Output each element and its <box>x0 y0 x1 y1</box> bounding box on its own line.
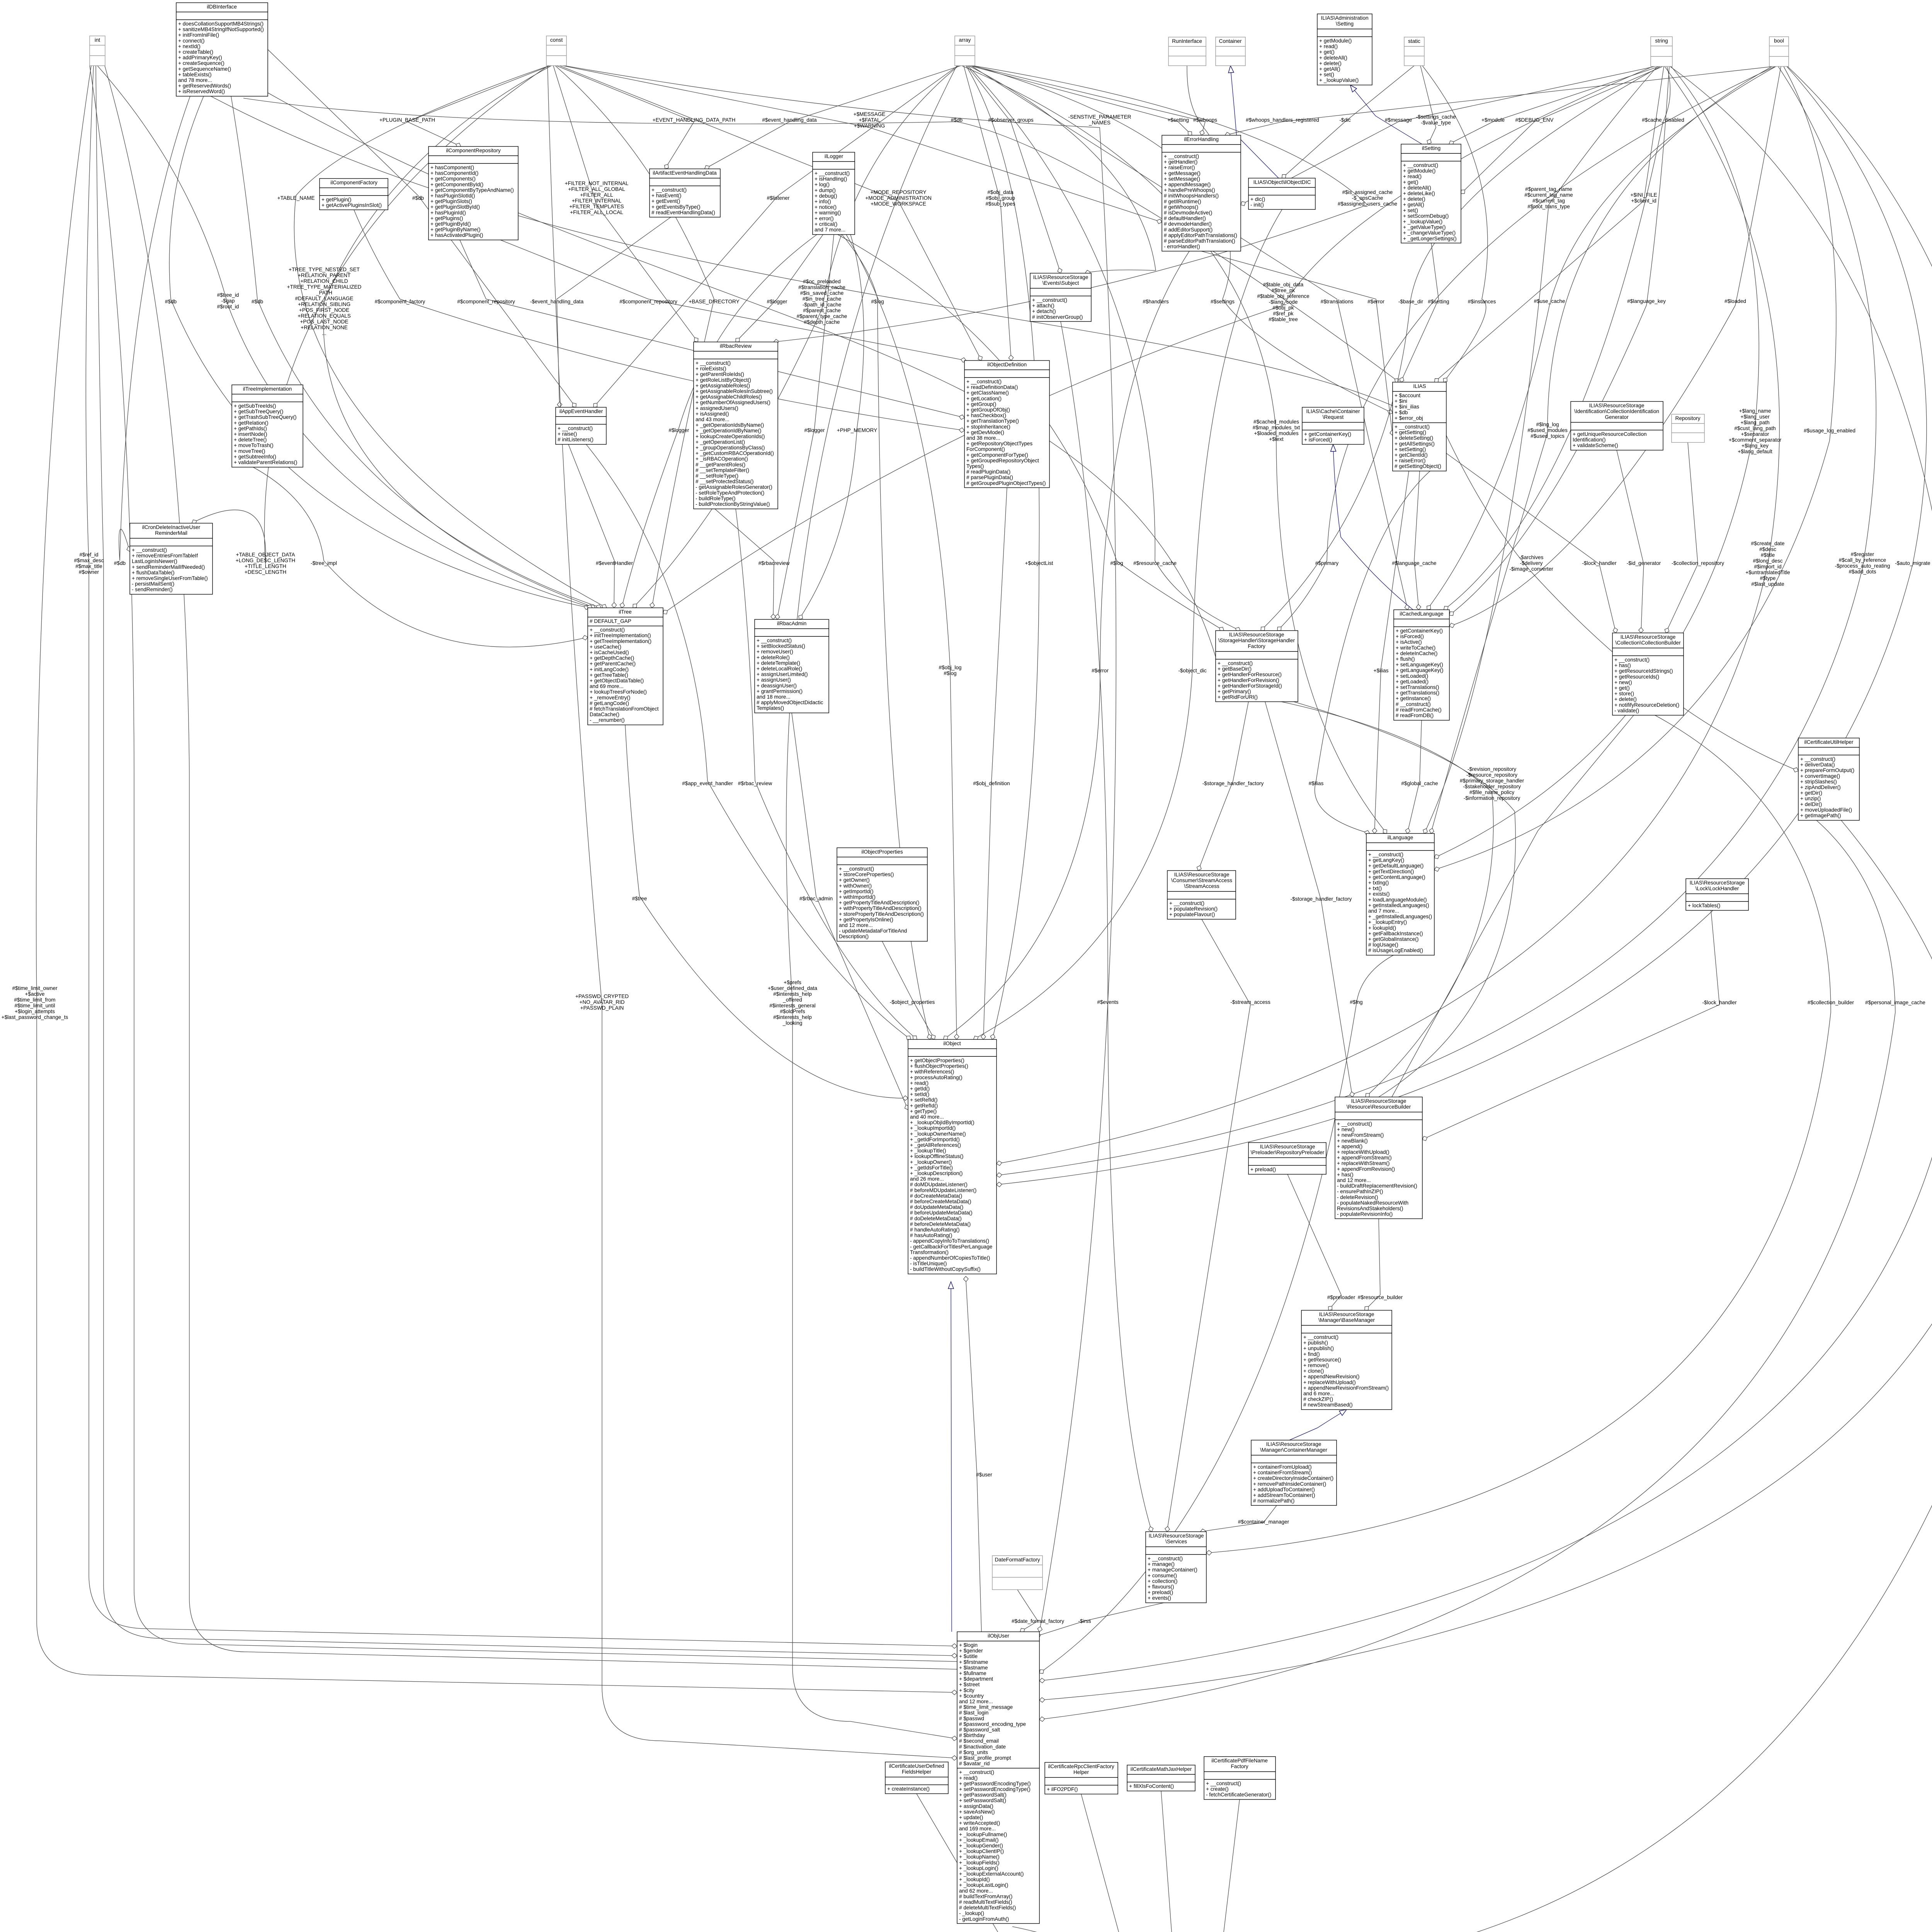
svg-text:ILIAS\ResourceStorage: ILIAS\ResourceStorage <box>1266 1441 1321 1447</box>
svg-text:-$archives: -$archives <box>1519 554 1544 560</box>
svg-text:#$container_manager: #$container_manager <box>1238 1519 1289 1525</box>
svg-text:+ withPropertyTitleAndDescript: + withPropertyTitleAndDescription() <box>839 905 922 911</box>
svg-text:#$register: #$register <box>1851 551 1874 557</box>
svg-text:+ setRefId(): + setRefId() <box>910 1097 937 1103</box>
svg-text:- _lookup(): - _lookup() <box>959 1910 984 1916</box>
svg-text:+ clone(): + clone() <box>1303 1368 1324 1374</box>
svg-text:ilDBInterface: ilDBInterface <box>207 4 237 10</box>
svg-text:ilComponentFactory: ilComponentFactory <box>330 180 378 185</box>
svg-text:# normalizePath(): # normalizePath() <box>1253 1498 1294 1504</box>
svg-text:+ getParentCache(): + getParentCache() <box>590 661 636 667</box>
svg-text:#$log: #$log <box>1110 560 1123 566</box>
svg-text:#$obj_group: #$obj_group <box>986 195 1015 201</box>
svg-text:-$image_converter: -$image_converter <box>1509 566 1553 572</box>
svg-text:+$module: +$module <box>1481 117 1505 123</box>
svg-text:Helper: Helper <box>1073 1769 1089 1775</box>
svg-text:+ __construct(): + __construct() <box>1395 424 1430 430</box>
svg-text:#$DEBUG_ENV: #$DEBUG_ENV <box>1515 117 1554 123</box>
svg-text:# readEventHandlingData(): # readEventHandlingData() <box>651 209 715 215</box>
svg-text:+ dump(): + dump() <box>815 187 836 193</box>
svg-text:+ getSubTreeIds(): + getSubTreeIds() <box>234 403 276 409</box>
svg-text:#$add_dots: #$add_dots <box>1849 569 1876 575</box>
svg-text:# readMultiTextFields(): # readMultiTextFields() <box>959 1899 1012 1905</box>
svg-text:+ update(): + update() <box>959 1815 983 1820</box>
svg-text:\StreamAccess: \StreamAccess <box>1184 883 1219 889</box>
svg-text:+ __construct(): + __construct() <box>1169 900 1204 906</box>
svg-text:#$desc: #$desc <box>1759 546 1776 552</box>
svg-text:+RELATION_PARENT: +RELATION_PARENT <box>298 272 351 278</box>
svg-text:-$lock_handler: -$lock_handler <box>1582 560 1617 566</box>
svg-text:-SENSTIVE_PARAMETER: -SENSTIVE_PARAMETER <box>1068 114 1131 120</box>
svg-text:...: ... <box>322 330 326 336</box>
svg-text:+ populateFlavour(): + populateFlavour() <box>1169 912 1215 917</box>
svg-text:# __construct(): # __construct() <box>1396 701 1431 707</box>
svg-text:+ hasPluginSlotId(): + hasPluginSlotId() <box>430 193 475 199</box>
svg-text:ForComponent(): ForComponent() <box>966 446 1005 452</box>
svg-text:#$settings: #$settings <box>1211 299 1235 304</box>
svg-text:+ debug(): + debug() <box>815 193 837 199</box>
svg-text:+ __construct(): + __construct() <box>132 547 167 553</box>
svg-text:ilObject: ilObject <box>943 1041 961 1046</box>
svg-text:-$storage_handler_factory: -$storage_handler_factory <box>1202 781 1264 786</box>
svg-text:+ nextId(): + nextId() <box>178 43 201 49</box>
svg-text:#$create_date: #$create_date <box>1751 541 1785 546</box>
svg-text:+MODE_REPOSITORY: +MODE_REPOSITORY <box>871 189 927 195</box>
svg-text:+ saveAsNew(): + saveAsNew() <box>959 1809 995 1815</box>
svg-text:+ lookupOfflineStatus(): + lookupOfflineStatus() <box>910 1153 963 1159</box>
svg-text:+ withImportId(): + withImportId() <box>839 894 876 900</box>
svg-text:and 38 more...: and 38 more... <box>966 435 1000 441</box>
svg-text:#$obj_definition: #$obj_definition <box>973 781 1010 786</box>
svg-text:+ raise(): + raise() <box>558 431 577 437</box>
svg-text:#$app_event_handler: #$app_event_handler <box>682 781 733 786</box>
svg-text:+ flushObjectProperties(): + flushObjectProperties() <box>910 1063 968 1069</box>
svg-text:and 26 more...: and 26 more... <box>910 1176 944 1182</box>
svg-text:#$error: #$error <box>1092 668 1109 673</box>
svg-text:+ create(): + create() <box>1206 1786 1229 1792</box>
svg-text:#$is_assigned_cache: #$is_assigned_cache <box>1342 189 1393 195</box>
svg-text:+ sendReminderMailIfNeeded(): + sendReminderMailIfNeeded() <box>132 564 205 570</box>
svg-text:+ getType(): + getType() <box>910 1108 937 1114</box>
svg-text:+TREE_TYPE_MATERIALIZED: +TREE_TYPE_MATERIALIZED <box>287 284 362 290</box>
svg-text:#$language_key: #$language_key <box>1627 298 1666 304</box>
svg-text:-$value_type: -$value_type <box>1421 120 1451 126</box>
svg-text:#$import_id: #$import_id <box>1754 564 1781 570</box>
svg-text:\Preloader\RepositoryPreloader: \Preloader\RepositoryPreloader <box>1251 1150 1325 1155</box>
svg-text:+ getAssignableRoles(): + getAssignableRoles() <box>696 383 750 388</box>
svg-text:+ _lookupEmail(): + _lookupEmail() <box>959 1837 998 1843</box>
svg-text:ILIAS\ResourceStorage: ILIAS\ResourceStorage <box>1260 1144 1315 1150</box>
svg-text:FieldsHelper: FieldsHelper <box>902 1769 932 1775</box>
svg-text:+ _lookupObjIdByImportId(): + _lookupObjIdByImportId() <box>910 1120 975 1126</box>
svg-text:+ assignUser(): + assignUser() <box>757 677 791 683</box>
svg-text:#$instances: #$instances <box>1468 299 1496 304</box>
svg-text:+ _getLongerSettings(): + _getLongerSettings() <box>1403 236 1457 241</box>
svg-text:+ _lookupId(): + _lookupId() <box>959 1877 990 1883</box>
svg-text:+ getAssignableChildRoles(): + getAssignableChildRoles() <box>696 394 762 400</box>
svg-text:- updateMetadataForTitleAnd: - updateMetadataForTitleAnd <box>839 928 907 934</box>
svg-text:\Identification\CollectionIden: \Identification\CollectionIdentification <box>1574 408 1659 414</box>
svg-text:+ manage(): + manage() <box>1148 1561 1175 1567</box>
svg-text:+ handlePreWhoops(): + handlePreWhoops() <box>1164 187 1215 193</box>
svg-text:+ isActive(): + isActive() <box>1396 639 1422 645</box>
svg-text:+ fillXlsFoContent(): + fillXlsFoContent() <box>1129 1783 1174 1789</box>
svg-text:#$table_obj_data: #$table_obj_data <box>1263 282 1304 287</box>
svg-text:and 18 more...: and 18 more... <box>757 694 791 700</box>
svg-text:+ setScormDebug(): + setScormDebug() <box>1403 213 1449 219</box>
svg-text:+ getId(): + getId() <box>910 1086 930 1092</box>
svg-text:+ __construct(): + __construct() <box>1800 756 1835 762</box>
svg-text:+ _removeEntry(): + _removeEntry() <box>590 695 630 701</box>
svg-text:+PASSWD_PLAIN: +PASSWD_PLAIN <box>580 1005 624 1011</box>
svg-text:string: string <box>1655 38 1668 44</box>
svg-text:#$tree_pk: #$tree_pk <box>1272 287 1295 293</box>
svg-text:#$call_by_reference: #$call_by_reference <box>1839 557 1886 563</box>
svg-text:+ getAllSettings(): + getAllSettings() <box>1395 441 1435 447</box>
svg-text:+ warning(): + warning() <box>815 210 841 216</box>
svg-text:+ getPluginSlotById(): + getPluginSlotById() <box>430 204 480 210</box>
svg-text:# initObserverGroup(): # initObserverGroup() <box>1032 314 1083 320</box>
svg-text:-$irss: -$irss <box>1078 1618 1091 1624</box>
svg-text:- sendReminder(): - sendReminder() <box>132 587 173 592</box>
svg-text:-$lock_handler: -$lock_handler <box>1702 1000 1737 1005</box>
svg-text:# getWhoops(): # getWhoops() <box>1164 204 1198 210</box>
svg-text:Container: Container <box>1219 38 1242 44</box>
svg-text:# newStreamBased(): # newStreamBased() <box>1303 1402 1353 1408</box>
svg-text:ILIAS\ResourceStorage: ILIAS\ResourceStorage <box>1621 634 1676 640</box>
svg-text:+ deleteSetting(): + deleteSetting() <box>1395 435 1433 441</box>
svg-text:- errorHandler(): - errorHandler() <box>1164 244 1200 250</box>
svg-text:#$obj_log: #$obj_log <box>939 665 962 670</box>
svg-text:ILIAS\ResourceStorage: ILIAS\ResourceStorage <box>1351 1098 1406 1104</box>
svg-text:# DEFAULT_GAP: # DEFAULT_GAP <box>590 618 631 624</box>
svg-text:+ get(): + get() <box>1614 685 1630 691</box>
svg-text:+ deleteTemplate(): + deleteTemplate() <box>757 660 800 666</box>
svg-text:+ addPrimaryKey(): + addPrimaryKey() <box>178 55 222 61</box>
svg-text:-$gap: -$gap <box>221 298 235 304</box>
svg-text:+ attach(): + attach() <box>1032 303 1054 309</box>
svg-text:+ withOwner(): + withOwner() <box>839 883 872 889</box>
svg-text:+ $error_obj: + $error_obj <box>1395 415 1423 421</box>
svg-text:# initWhoopsHandlers(): # initWhoopsHandlers() <box>1164 193 1219 199</box>
svg-text:#$logger: #$logger <box>804 427 825 433</box>
svg-text:+ getActivePluginsInSlot(): + getActivePluginsInSlot() <box>321 202 382 208</box>
svg-text:+ _isRBACOperation(): + _isRBACOperation() <box>696 456 748 462</box>
svg-text:ReminderMail: ReminderMail <box>155 530 187 536</box>
svg-text:- appendNumberOfCopiesToTitle(: - appendNumberOfCopiesToTitle() <box>910 1255 990 1261</box>
svg-text:+ $gender: + $gender <box>959 1648 983 1654</box>
svg-text:+ validateParentRelations(): + validateParentRelations() <box>234 459 297 465</box>
svg-text:+ _getAllReferences(): + _getAllReferences() <box>910 1142 961 1148</box>
svg-text:#DEFAULT_LANGUAGE: #DEFAULT_LANGUAGE <box>295 296 354 301</box>
svg-text:-$information_repository: -$information_repository <box>1464 795 1520 801</box>
svg-text:#$whoops_handlers_registered: #$whoops_handlers_registered <box>1246 117 1319 123</box>
svg-text:+ deleteAll(): + deleteAll() <box>1403 185 1431 190</box>
svg-text:+ convertImage(): + convertImage() <box>1800 773 1840 779</box>
svg-text:+ roleExists(): + roleExists() <box>696 366 726 372</box>
svg-text:# $birthday: # $birthday <box>959 1733 985 1738</box>
svg-text:+ addStreamToContainer(): + addStreamToContainer() <box>1253 1492 1315 1498</box>
svg-text:- isTitleUnique(): - isTitleUnique() <box>910 1261 947 1267</box>
svg-text:ilAppEventHandler: ilAppEventHandler <box>560 408 603 414</box>
svg-text:+ getPrimary(): + getPrimary() <box>1218 689 1251 694</box>
svg-text:+ _getIdForImportId(): + _getIdForImportId() <box>910 1136 960 1142</box>
svg-text:Generator: Generator <box>1605 414 1629 420</box>
svg-text:#$global_cache: #$global_cache <box>1401 781 1438 786</box>
svg-text:- buildProtectionByStringValue: - buildProtectionByStringValue() <box>696 501 770 507</box>
svg-text:+ replaceWithStream(): + replaceWithStream() <box>1337 1160 1389 1166</box>
svg-text:# readFromCache(): # readFromCache() <box>1396 707 1442 713</box>
svg-text:+ __construct(): + __construct() <box>966 379 1002 384</box>
svg-text:# doDeleteMetaData(): # doDeleteMetaData() <box>910 1216 962 1221</box>
svg-text:-$object_properties: -$object_properties <box>890 999 935 1005</box>
svg-text:#$db: #$db <box>165 299 177 304</box>
svg-text:Repository: Repository <box>1675 415 1701 421</box>
svg-text:-$tree_impl: -$tree_impl <box>311 560 337 566</box>
svg-text:+RELATION_SIBLING: +RELATION_SIBLING <box>298 301 350 307</box>
svg-text:+ txtlng(): + txtlng() <box>1368 880 1389 886</box>
svg-text:+ getModule(): + getModule() <box>1403 168 1435 174</box>
svg-text:+ connect(): + connect() <box>178 38 204 44</box>
svg-text:#$current_tag_name: #$current_tag_name <box>1524 192 1573 198</box>
svg-text:+ setLoaded(): + setLoaded() <box>1396 673 1428 679</box>
svg-text:ilCachedLanguage: ilCachedLanguage <box>1400 611 1443 617</box>
svg-text:+ getGroupOfObj(): + getGroupOfObj() <box>966 407 1010 413</box>
svg-text:- validate(): - validate() <box>1614 707 1639 713</box>
svg-text:+FILTER_ALL_LOCAL: +FILTER_ALL_LOCAL <box>570 209 623 215</box>
svg-text:+ createInstance(): + createInstance() <box>887 1786 930 1792</box>
svg-text:+ _getValueType(): + _getValueType() <box>1403 224 1446 230</box>
svg-text:+ __construct(): + __construct() <box>1032 297 1067 303</box>
svg-text:+ __construct(): + __construct() <box>1614 657 1650 663</box>
svg-text:#$language_cache: #$language_cache <box>1392 560 1437 566</box>
svg-text:RunInterface: RunInterface <box>1172 38 1202 44</box>
svg-text:ilLogger: ilLogger <box>825 153 844 159</box>
svg-text:# $passwd: # $passwd <box>959 1716 984 1721</box>
svg-text:and 12 more...: and 12 more... <box>1337 1177 1371 1183</box>
svg-text:+ getSubtreeInfo(): + getSubtreeInfo() <box>234 454 276 459</box>
svg-text:ILIAS\Administration: ILIAS\Administration <box>1321 15 1368 21</box>
svg-text:+DESC_LENGTH: +DESC_LENGTH <box>245 569 286 575</box>
svg-text:#$interests_general: #$interests_general <box>769 1003 815 1009</box>
svg-text:#$db: #$db <box>114 560 126 566</box>
svg-text:+ preload(): + preload() <box>1148 1590 1173 1595</box>
svg-text:+ deliverData(): + deliverData() <box>1800 762 1835 768</box>
svg-text:DateFormatFactory: DateFormatFactory <box>995 1557 1040 1563</box>
svg-text:-$settings_cache: -$settings_cache <box>1416 114 1456 120</box>
svg-text:+ setPasswordEncodingType(): + setPasswordEncodingType() <box>959 1786 1031 1792</box>
svg-text:+ log(): + log() <box>815 182 830 187</box>
svg-text:+$lang_name: +$lang_name <box>1739 408 1771 414</box>
svg-text:+ raiseError(): + raiseError() <box>1395 458 1425 464</box>
svg-text:+ appendNewRevision(): + appendNewRevision() <box>1303 1374 1359 1379</box>
svg-text:-$stream_access: -$stream_access <box>1230 999 1270 1005</box>
svg-text:ILIAS\ResourceStorage: ILIAS\ResourceStorage <box>1174 872 1230 878</box>
svg-text:+ stopInheritance(): + stopInheritance() <box>966 424 1010 430</box>
svg-text:#$ref_id: #$ref_id <box>79 552 98 558</box>
svg-text:# beforeCreateMetaData(): # beforeCreateMetaData() <box>910 1199 971 1204</box>
svg-text:Factory: Factory <box>1231 1764 1248 1769</box>
svg-text:+ _lookupLogin(): + _lookupLogin() <box>959 1865 998 1871</box>
svg-text:+ __construct(): + __construct() <box>757 638 792 643</box>
svg-text:-$path_id_cache: -$path_id_cache <box>803 302 842 308</box>
svg-text:#$oldPrefs: #$oldPrefs <box>780 1009 805 1014</box>
svg-text:# addEditorSupport(): # addEditorSupport() <box>1164 227 1213 233</box>
svg-text:and 69 more...: and 69 more... <box>590 684 624 689</box>
svg-text:+ getComponentByTypeAndName(): + getComponentByTypeAndName() <box>430 187 514 193</box>
svg-text:+ __construct(): + __construct() <box>1164 153 1199 159</box>
svg-text:+ get(): + get() <box>1403 179 1418 185</box>
svg-text:+ getTranslationType(): + getTranslationType() <box>966 418 1019 424</box>
svg-text:+ $utitle: + $utitle <box>959 1653 978 1659</box>
svg-text:\StorageHandler\StorageHandler: \StorageHandler\StorageHandler <box>1218 638 1295 643</box>
svg-text:+ grantPermission(): + grantPermission() <box>757 688 803 694</box>
svg-text:+ dic(): + dic() <box>1250 196 1265 202</box>
svg-text:+FILTER_INTERNAL: +FILTER_INTERNAL <box>572 198 622 204</box>
svg-text:#$collection_builder: #$collection_builder <box>1808 1000 1854 1005</box>
svg-text:#$message: #$message <box>1385 117 1412 123</box>
svg-text:+ getSubTreeQuery(): + getSubTreeQuery() <box>234 409 283 415</box>
svg-text:-$object_dic: -$object_dic <box>1178 668 1207 673</box>
svg-text:+ __construct(): + __construct() <box>558 425 593 431</box>
svg-text:# $password_salt: # $password_salt <box>959 1727 1000 1733</box>
svg-text:# $avatar_rid: # $avatar_rid <box>959 1761 990 1767</box>
svg-text:+$lang_path: +$lang_path <box>1740 420 1769 425</box>
svg-text:+ $fullname: + $fullname <box>959 1670 986 1676</box>
svg-text:+ getRelation(): + getRelation() <box>234 420 269 426</box>
svg-text:+ loadLanguageModule(): + loadLanguageModule() <box>1368 897 1427 903</box>
svg-text:ilRbacAdmin: ilRbacAdmin <box>777 621 806 626</box>
svg-text:+ addUploadToContainer(): + addUploadToContainer() <box>1253 1486 1315 1492</box>
svg-text:+ ilFO2PDF(): + ilFO2PDF() <box>1047 1786 1078 1792</box>
svg-text:# logUsage(): # logUsage() <box>1368 942 1398 948</box>
svg-text:+ getBaseDir(): + getBaseDir() <box>1218 666 1252 672</box>
svg-text:_PATH: _PATH <box>316 290 332 296</box>
svg-text:+ getPluginSlots(): + getPluginSlots() <box>430 199 472 204</box>
svg-text:\Services: \Services <box>1165 1539 1187 1544</box>
svg-text:+ append(): + append() <box>1337 1143 1362 1149</box>
svg-text:-$storage_handler_factory: -$storage_handler_factory <box>1291 896 1352 902</box>
svg-text:+ getReservedWords(): + getReservedWords() <box>178 83 231 89</box>
svg-text:+ hasEvent(): + hasEvent() <box>651 193 681 199</box>
svg-text:LastLoginIsNewer(): LastLoginIsNewer() <box>132 558 177 564</box>
svg-text:+ setId(): + setId() <box>910 1092 929 1097</box>
svg-text:+ assignData(): + assignData() <box>959 1803 993 1809</box>
svg-text:#$log: #$log <box>871 299 884 304</box>
svg-text:\Manager\ContainerManager: \Manager\ContainerManager <box>1260 1447 1327 1453</box>
svg-text:#$obj_data: #$obj_data <box>987 189 1014 195</box>
svg-text:# applyEditorPathTranslations(: # applyEditorPathTranslations() <box>1164 232 1237 238</box>
svg-text:+ flushDataTable(): + flushDataTable() <box>132 570 175 575</box>
svg-text:+TREE_TYPE_NESTED_SET: +TREE_TYPE_NESTED_SET <box>289 267 360 272</box>
svg-text:# $second_email: # $second_email <box>959 1738 999 1744</box>
svg-text:+ isHandling(): + isHandling() <box>815 176 847 182</box>
svg-text:+ isForced(): + isForced() <box>1396 634 1424 639</box>
svg-text:+ getAll(): + getAll() <box>1403 202 1424 207</box>
svg-text:+ moveTree(): + moveTree() <box>234 448 265 454</box>
svg-text:+ setLanguageKey(): + setLanguageKey() <box>1396 662 1443 668</box>
svg-text:+ stripSlashes(): + stripSlashes() <box>1800 779 1837 784</box>
svg-text:#$events: #$events <box>1097 999 1118 1005</box>
svg-text:-$_opsCache: -$_opsCache <box>1352 195 1383 201</box>
svg-text:+ tableExists(): + tableExists() <box>178 71 212 77</box>
svg-text:# checkZIP(): # checkZIP() <box>1303 1396 1333 1402</box>
svg-text:+ removeSingleUserFromTable(): + removeSingleUserFromTable() <box>132 575 208 581</box>
svg-text:+ appendMessage(): + appendMessage() <box>1164 182 1211 187</box>
svg-text:const: const <box>550 37 563 43</box>
svg-text:+$last_password_change_ts: +$last_password_change_ts <box>2 1014 68 1020</box>
svg-text:# $last_profile_prompt: # $last_profile_prompt <box>959 1755 1011 1761</box>
svg-text:and 7 more...: and 7 more... <box>815 227 845 233</box>
svg-text:+ hasComponent(): + hasComponent() <box>430 165 474 170</box>
svg-text:+NO_AVATAR_RID: +NO_AVATAR_RID <box>579 999 624 1005</box>
svg-text:#$primary: #$primary <box>1315 560 1339 566</box>
svg-text:+ info(): + info() <box>815 199 831 204</box>
svg-text:+ flush(): + flush() <box>1396 656 1415 662</box>
svg-text:+FILTER_ALL_GLOBAL: +FILTER_ALL_GLOBAL <box>568 186 625 192</box>
svg-text:#$setting: #$setting <box>1428 299 1449 304</box>
svg-text:-$event_handling_data: -$event_handling_data <box>530 299 584 304</box>
svg-text:and 7 more...: and 7 more... <box>1368 908 1399 914</box>
svg-text:+ getMessage(): + getMessage() <box>1164 170 1201 176</box>
svg-text:and 6 more...: and 6 more... <box>1303 1391 1334 1396</box>
svg-text:+ getGroup(): + getGroup() <box>966 401 996 407</box>
svg-text:+EVENT_HANDLING_DATA_PATH: +EVENT_HANDLING_DATA_PATH <box>653 117 736 123</box>
svg-text:+ raiseError(): + raiseError() <box>1164 165 1195 170</box>
svg-text:#$rbac_admin: #$rbac_admin <box>799 896 833 901</box>
svg-text:+ isCacheUsed(): + isCacheUsed() <box>590 650 629 655</box>
svg-text:# __setRoleType(): # __setRoleType() <box>696 473 738 479</box>
svg-text:#$owner: #$owner <box>79 569 99 575</box>
svg-text:+ getPropertyIsOnline(): + getPropertyIsOnline() <box>839 917 893 922</box>
svg-text:Factory: Factory <box>1248 643 1265 649</box>
svg-text:-$base_dir: -$base_dir <box>1398 299 1423 304</box>
svg-text:+ lookupCreateOperationIds(): + lookupCreateOperationIds() <box>696 434 765 439</box>
svg-text:#$lng: #$lng <box>1350 999 1362 1005</box>
svg-text:# hasAutoRating(): # hasAutoRating() <box>910 1233 952 1238</box>
svg-text:+ getAssignableRolesInSubtree(: + getAssignableRolesInSubtree() <box>696 388 773 394</box>
svg-text:# getLangCode(): # getLangCode() <box>590 700 629 706</box>
svg-text:+ getTranslations(): + getTranslations() <box>1396 690 1439 696</box>
svg-text:+ critical(): + critical() <box>815 221 837 227</box>
svg-text:#$time_limit_owner: #$time_limit_owner <box>12 985 58 991</box>
svg-text:+POS_LAST_NODE: +POS_LAST_NODE <box>300 319 348 325</box>
svg-text:-$delivery: -$delivery <box>1520 560 1543 566</box>
svg-text:+ getClassName(): + getClassName() <box>966 390 1009 396</box>
svg-text:+ initLangCode(): + initLangCode() <box>590 667 629 672</box>
svg-text:# __setTemplateFilter(): # __setTemplateFilter() <box>696 467 749 473</box>
svg-text:+ __construct(): + __construct() <box>839 866 874 872</box>
svg-text:+ getDevMode(): + getDevMode() <box>966 429 1004 435</box>
svg-text:+ initFromIniFile(): + initFromIniFile() <box>178 32 219 38</box>
svg-text:+ $ini: + $ini <box>1395 398 1407 404</box>
svg-text:- buildDraftReplacementRevisio: - buildDraftReplacementRevision() <box>1337 1183 1417 1189</box>
svg-text:+ read(): + read() <box>959 1775 978 1781</box>
svg-text:+ getComponentForType(): + getComponentForType() <box>966 452 1028 458</box>
svg-text:-$collection_repository: -$collection_repository <box>1672 560 1724 566</box>
svg-text:ilErrorHandling: ilErrorHandling <box>1184 136 1219 142</box>
svg-text:- fetchCertificateGenerator(): - fetchCertificateGenerator() <box>1206 1792 1271 1798</box>
svg-text:+ setMessage(): + setMessage() <box>1164 176 1200 182</box>
svg-text:+ $city: + $city <box>959 1687 975 1693</box>
svg-text:+ read(): + read() <box>1403 173 1422 179</box>
svg-text:+$lang_key: +$lang_key <box>1742 443 1769 449</box>
svg-text:#$depth_cache: #$depth_cache <box>804 319 840 325</box>
svg-text:+MODE_ADMINISTRATION: +MODE_ADMINISTRATION <box>865 195 932 201</box>
svg-text:+ read(): + read() <box>910 1080 929 1086</box>
svg-text:+$comment_separator: +$comment_separator <box>1729 437 1782 443</box>
svg-text:#$cache_disabled: #$cache_disabled <box>1642 117 1684 123</box>
